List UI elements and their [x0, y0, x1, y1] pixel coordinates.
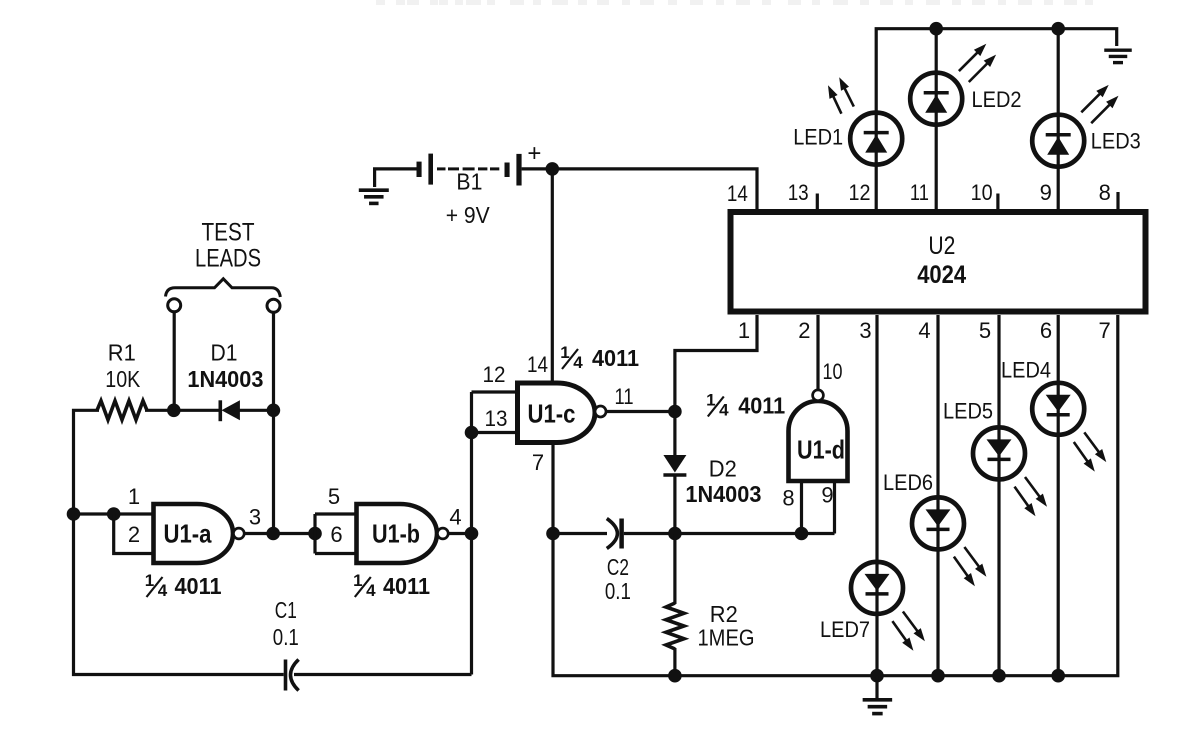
wire U2 pin5	[997, 315, 1000, 676]
junction	[546, 527, 560, 541]
svg-text:9: 9	[821, 483, 833, 508]
svg-text:4: 4	[918, 318, 930, 343]
wire C2 line	[553, 532, 607, 535]
svg-text:8: 8	[1099, 180, 1111, 205]
svg-text:10: 10	[971, 180, 993, 205]
svg-text:LED7: LED7	[820, 617, 870, 642]
wire U2 pin4	[936, 315, 939, 676]
junction	[308, 527, 322, 541]
capacitor C1	[284, 660, 288, 691]
LED7 arrows	[892, 621, 908, 643]
svg-text:0.1: 0.1	[273, 624, 299, 650]
svg-text:2: 2	[798, 318, 810, 343]
LED3	[1032, 115, 1084, 167]
svg-text:3: 3	[249, 505, 261, 530]
svg-text:TEST: TEST	[202, 219, 255, 247]
svg-text:13: 13	[485, 406, 508, 431]
wire	[624, 532, 835, 535]
junction	[668, 527, 682, 541]
wire	[145, 409, 220, 412]
wire U2 pin11	[935, 29, 938, 212]
svg-text:4: 4	[158, 581, 168, 600]
svg-text:1: 1	[353, 571, 362, 590]
junction	[1051, 669, 1065, 683]
svg-text:1N4003: 1N4003	[685, 481, 761, 507]
resistor R2	[673, 534, 676, 605]
junction	[107, 507, 121, 521]
svg-text:7: 7	[1098, 318, 1110, 343]
wire	[173, 312, 176, 410]
bubble U1-a output	[233, 528, 244, 539]
svg-text:8: 8	[782, 486, 794, 511]
wire	[472, 392, 518, 433]
bubble U1-d output	[813, 390, 824, 401]
brace	[166, 279, 281, 297]
svg-text:LED4: LED4	[1001, 358, 1051, 383]
test lead terminal 1	[168, 299, 181, 312]
LED5 arrows	[1015, 487, 1031, 509]
wire U2 pin6	[1057, 315, 1060, 676]
svg-text:R1: R1	[108, 340, 136, 366]
nand gate U1-c	[518, 383, 596, 443]
junction	[465, 426, 479, 440]
wire to U2 pin1	[675, 315, 757, 412]
svg-text:U1-a: U1-a	[164, 519, 212, 549]
svg-text:LED2: LED2	[972, 87, 1022, 112]
junction	[870, 669, 884, 683]
svg-text:C2: C2	[607, 554, 629, 580]
svg-text:7: 7	[532, 450, 544, 475]
svg-text:1: 1	[706, 391, 715, 410]
junction	[795, 527, 809, 541]
ground (top right)	[1104, 49, 1132, 52]
LED6	[912, 497, 964, 549]
svg-text:D1: D1	[211, 340, 238, 366]
svg-text:1: 1	[145, 571, 154, 590]
svg-text:4: 4	[366, 581, 376, 600]
wire input loop U1-a	[114, 514, 154, 554]
svg-text:14: 14	[527, 352, 548, 377]
LED2	[910, 73, 962, 125]
svg-text:+ 9V: + 9V	[446, 202, 491, 228]
svg-text:5: 5	[328, 484, 340, 509]
wire U2 pin3	[875, 315, 878, 676]
LED1	[850, 113, 902, 165]
scan artifact dashes	[376, 0, 385, 5]
svg-text:LED1: LED1	[793, 125, 843, 150]
LED1 arrows	[832, 93, 842, 113]
svg-text:U1-c: U1-c	[528, 399, 576, 429]
svg-text:LED3: LED3	[1091, 129, 1141, 154]
resistor R1	[97, 401, 147, 420]
wire U1-c pin7 + bottom rail	[553, 315, 1118, 676]
ground (bottom)	[875, 676, 878, 698]
junction	[67, 507, 81, 521]
svg-text:6: 6	[1040, 318, 1052, 343]
svg-text:13: 13	[788, 180, 809, 205]
svg-text:12: 12	[483, 362, 506, 387]
svg-text:LED6: LED6	[883, 470, 933, 495]
svg-text:U1-b: U1-b	[372, 519, 420, 549]
junction	[465, 527, 479, 541]
svg-text:R2: R2	[710, 601, 738, 627]
node pin1 wire U1-a	[74, 512, 154, 515]
junction	[1051, 22, 1065, 36]
junction	[546, 162, 560, 176]
bubble U1-b output	[437, 528, 448, 539]
svg-text:1: 1	[738, 318, 750, 343]
wire	[244, 532, 315, 535]
wire	[74, 410, 284, 674]
wire U1-c pin14	[551, 169, 554, 383]
junction	[668, 405, 682, 419]
diode D1	[219, 400, 223, 421]
svg-text:0.1: 0.1	[605, 578, 631, 604]
junction	[929, 22, 943, 36]
svg-text:9: 9	[1040, 180, 1052, 205]
junction	[267, 404, 281, 418]
wire U2 pin9	[1057, 29, 1060, 212]
svg-text:10: 10	[823, 359, 843, 384]
test lead terminal 2	[267, 299, 280, 312]
svg-text:LEADS: LEADS	[195, 245, 261, 273]
svg-text:11: 11	[615, 384, 634, 409]
nand gate U1-a	[154, 504, 234, 563]
LED7	[851, 562, 903, 614]
svg-text:5: 5	[979, 318, 991, 343]
svg-text:4011: 4011	[738, 393, 785, 419]
svg-text:U2: U2	[928, 232, 955, 260]
wire U1-c output	[606, 410, 675, 413]
svg-text:12: 12	[849, 180, 871, 205]
LED6 arrows	[954, 557, 970, 579]
LED3 arrows	[1081, 91, 1102, 112]
svg-text:1: 1	[560, 343, 569, 362]
svg-text:+: +	[527, 140, 541, 167]
svg-text:U1-d: U1-d	[797, 435, 845, 465]
diode D2	[673, 412, 676, 457]
svg-text:10K: 10K	[105, 366, 141, 392]
svg-text:4011: 4011	[175, 573, 222, 599]
svg-text:LED5: LED5	[943, 399, 993, 424]
wire	[272, 313, 275, 534]
battery B1	[417, 162, 422, 177]
capacitor C2	[607, 519, 618, 549]
junction	[931, 669, 945, 683]
ground (battery)	[375, 169, 418, 187]
svg-text:11: 11	[910, 180, 929, 205]
bubble U1-c output	[595, 406, 606, 417]
svg-text:4: 4	[573, 353, 583, 372]
wire input loop U1-b	[315, 514, 357, 554]
svg-text:1N4003: 1N4003	[187, 366, 263, 392]
svg-text:4011: 4011	[383, 573, 430, 599]
svg-text:D2: D2	[709, 456, 737, 482]
LED2 arrows	[959, 50, 980, 71]
junction	[668, 669, 682, 683]
svg-text:6: 6	[330, 522, 342, 547]
wire power rail	[522, 169, 757, 213]
svg-text:3: 3	[859, 318, 871, 343]
junction	[167, 404, 181, 418]
svg-text:C1: C1	[275, 597, 297, 623]
junction	[992, 669, 1006, 683]
wire	[239, 409, 274, 412]
junction	[266, 527, 280, 541]
svg-text:4024: 4024	[917, 261, 966, 289]
LED4	[1032, 383, 1084, 435]
wire	[448, 532, 471, 535]
svg-text:2: 2	[128, 522, 140, 547]
svg-text:4011: 4011	[592, 345, 639, 371]
svg-text:4: 4	[449, 505, 461, 530]
nand gate U1-d	[789, 401, 848, 481]
IC U2 4024	[731, 212, 1146, 312]
svg-text:14: 14	[727, 181, 748, 206]
svg-text:B1: B1	[456, 169, 482, 195]
wire right rail	[470, 392, 473, 675]
wire	[294, 673, 472, 676]
LED5	[973, 427, 1025, 479]
nand gate U1-b	[357, 504, 438, 563]
svg-text:1: 1	[128, 484, 140, 509]
svg-text:1MEG: 1MEG	[698, 625, 755, 651]
wire U1-d input stubs	[802, 481, 835, 534]
LED4 arrows	[1074, 442, 1090, 464]
wire U1-d output to U2 pin2	[816, 315, 819, 390]
svg-text:4: 4	[719, 401, 729, 420]
wire U2 pin12 + top rail to ground	[876, 29, 1116, 212]
